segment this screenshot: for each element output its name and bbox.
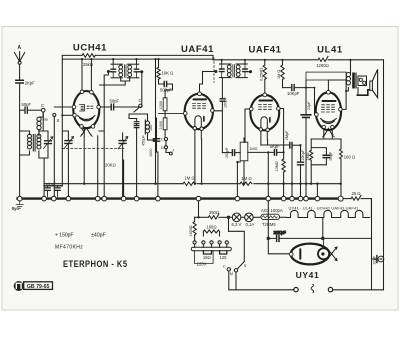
lamp 6.3V [232,213,241,222]
svg-text:160 Ω: 160 Ω [344,155,355,160]
anode bar UAF2 [260,100,273,102]
wire inner right vertical [371,199,373,290]
electrolytic 32uF [372,255,384,263]
pin circle UAF1 top [198,92,202,96]
pin circle UAF2 left [249,107,253,111]
wire 450pF legs [157,118,158,196]
pin circle UCH41 right-mid [97,105,101,109]
svg-text:1000: 1000 [159,101,163,109]
switch contact b [234,269,237,272]
IF1 sec bottom drop [100,78,130,85]
wire lamp feed from gnd circle [198,201,200,217]
wire UAF2 diode right to 2MpF [261,140,268,145]
svg-text:0,1A: 0,1A [246,222,255,227]
ground symbol chassis [16,201,24,208]
wire right border [383,60,385,290]
IF1 cap right [134,69,138,72]
wire tcap2 top [122,133,124,141]
pin circle UCH41 bottom-right [91,125,95,129]
svg-text:22μF: 22μF [307,101,311,110]
terminal C2 [139,104,142,107]
wire between lamps [241,216,245,218]
svg-text:50рF: 50рF [110,99,120,104]
cathode arc UCH41 [78,116,96,120]
cap 0.1uF b [55,188,60,191]
resistor 160 horizontal [203,230,219,236]
svg-text:1000: 1000 [149,149,153,157]
wire cath drop [99,131,104,196]
wire UL41 grid feed [315,88,316,115]
wire 2MpF right [292,144,301,146]
wire osc join [148,139,157,141]
wire antenna down [19,64,21,80]
pin circle UAF2 top [263,93,267,97]
svg-text:UY41: UY41 [296,270,320,280]
link loop 180 [203,251,211,254]
capacitor 2KpF [16,80,23,83]
pin circle UAF1 left [184,112,188,116]
IF2 sec drop cap 100pF [221,78,223,99]
speaker cone [372,69,377,97]
wire UCH41 osc grid link [82,128,85,132]
junction circle gnd 15 [298,196,303,201]
svg-text:20KΩ: 20KΩ [105,163,116,168]
pin circle UL41 bottom-right [331,125,334,128]
resistor 160 ohm cathode [340,139,343,166]
wire osc grid drop [83,129,85,184]
svg-text:0уо: 0уо [12,206,20,211]
wire 5KpF out [277,151,284,153]
IF2 cap right [243,69,247,72]
IF1 bottom bar left [111,77,123,79]
wire top rail to corner [328,59,384,61]
variable capacitor antenna trim [43,131,53,158]
wire UAF1 topcap up [200,72,203,92]
svg-text:C: C [139,98,142,103]
wire UCH41 leftlow pin to frame [62,114,72,116]
wire upper rail cont [95,54,213,56]
svg-text:A: A [18,45,22,51]
wire switch to plug [229,271,293,290]
svg-text:10MΩ: 10MΩ [275,161,279,171]
IF2 feed stubs [222,60,245,64]
wire 350 line left [195,216,209,218]
pin circle UL41 left [315,113,319,117]
resistor 1000 box a [163,98,167,111]
capacitor 2MpF [290,142,292,148]
pin circle UL41 top [327,90,331,94]
pin circle UAF1 right [211,109,215,113]
selector pin 3 [210,241,213,244]
IF2 top bar left [220,63,232,65]
svg-text:10K Ω: 10K Ω [162,71,174,76]
wire 50pF to switch C [109,106,139,108]
svg-text:UAF41: UAF41 [181,44,214,55]
wire 22uF chain [305,80,307,196]
UY41 arrows [327,247,337,260]
selector pin 2 [202,241,205,244]
resistor 10K vertical [157,59,160,79]
wire tcap1 bottom [67,143,69,196]
wire to 50pF [20,109,24,111]
svg-text:10KрF: 10KрF [301,149,305,161]
svg-text:500pF: 500pF [160,88,172,93]
capacitor 5KpF [274,150,276,156]
IF1 right drop to osc [140,72,141,107]
wire heater drop [97,136,99,196]
resistor 25k in upper rail [82,54,95,58]
pin circle UAF2 bottom-left [259,128,262,131]
cathode arc UL41 [321,119,337,123]
svg-text:1MΩ: 1MΩ [249,147,257,151]
svg-text:1600Ω: 1600Ω [189,225,193,236]
pin circle UCH41 left-low [73,114,77,118]
pin circle UAF2 bottom-right [266,128,269,131]
wire left frame vertical [61,55,63,185]
svg-text:ETERPHON - K5: ETERPHON - K5 [63,258,128,269]
speaker return wire [357,90,370,95]
resistor 1M inline AVC [183,182,195,185]
svg-text:450рF: 450рF [142,135,146,146]
diode plate UAF2 [269,118,271,123]
wire 20KpF line [268,201,371,239]
svg-text:203рF: 203рF [225,147,229,158]
logo box GB 79-65 [24,282,53,290]
IF1 feed stubs [113,59,136,64]
junction circle gnd end [338,196,343,201]
wire coil sec top [39,112,43,135]
svg-text:UY41 · UL41 · UCH41 UAF41 UAF4: UY41 · UL41 · UCH41 UAF41 UAF41 [289,206,360,211]
tube UL41 envelope [316,92,341,130]
svg-text:32μF: 32μF [372,255,376,264]
mains plug terminal 1 [294,287,298,291]
selector pin 1 [193,241,196,244]
grid dashes UAF2 [259,105,272,110]
wire AVC bus right [254,183,341,185]
svg-text:100рF: 100рF [224,97,228,108]
pin circle UL41 right [339,108,343,112]
terminal J [169,152,172,155]
wire rail join at IF2 [212,55,214,59]
pin circle UCH41 left-mid [72,105,76,109]
anode bar UL41 [323,100,336,102]
selector pin 4 [218,241,221,244]
wire UAF2 left pin [245,109,249,142]
svg-text:10KрF: 10KрF [287,91,300,96]
IF2 bottom bar left [220,77,232,79]
svg-text:125: 125 [220,255,228,260]
wire to switch [229,231,245,261]
IF2 core [233,65,235,77]
electrolytic 22uF [301,115,311,118]
wire 10KpF vert [300,145,302,161]
wire UAF1 diode left drop [194,139,196,184]
IF1 top bar right [128,63,139,65]
junction circle gnd 6 [102,196,107,201]
transformer primary coil [346,72,350,85]
wire coil sec bottom [39,151,48,196]
svg-text:T2RM5: T2RM5 [262,222,276,227]
wire coil prim left leg [20,131,30,155]
junction circle gnd 16 [304,196,309,201]
IF2 dashed can [213,58,215,83]
resistor 25ohm inline [351,195,361,200]
svg-text:0,25MΩ: 0,25MΩ [259,67,263,81]
tube UCH41 envelope [73,91,99,128]
wire pot top [243,138,245,142]
IF1 left drop [104,72,108,132]
ground rail thick [18,197,341,199]
wire heater tap down [322,218,324,239]
pin circle UAF2 bottom-left redraw [259,128,262,131]
cathode bypass loop [310,139,327,184]
wire C down to coil Ma [39,112,43,117]
wire 317 stub [316,184,318,197]
wire S switch line [53,117,55,197]
svg-text:J: J [172,149,174,153]
antenna coil core [33,135,35,152]
pin circle UAF1 bottom-right redraw [200,127,203,130]
svg-text:C: C [223,265,226,269]
wire af out [222,152,231,154]
pin circle UAF1 bottom-left [193,127,196,130]
wire UCH41 out right [100,106,108,108]
svg-text:18Ω: 18Ω [203,255,211,260]
svg-text:C: C [161,138,164,142]
wire upper B+ rail [62,54,82,56]
wire UL41 anode right [342,80,346,109]
switch blade [237,262,244,270]
wire osc coil legs [147,114,149,140]
heater UCH41 [82,128,91,135]
variable capacitor tuning 2 [119,141,126,144]
terminal C phono [164,137,167,140]
capacitor 50pF IF out [111,104,113,110]
IF1 bottom bar right [128,77,139,79]
svg-text:Mа: Mа [43,118,49,122]
svg-text:350Ω: 350Ω [209,210,219,215]
resistor 1M inline AVC 2 [240,182,252,185]
IF1 stub dots [109,71,141,73]
wire resistor chain [164,90,166,137]
wire UL41 topcap [328,80,346,90]
wire 50pF to C [28,109,41,111]
grid dashes UAF1 [193,103,206,108]
wire to right inner vertical [361,198,372,200]
pin circle UY41 left [289,252,293,256]
wire osc top to tube [129,114,148,119]
IF1 cap left [111,69,115,72]
svg-text:50рF: 50рF [22,102,32,107]
svg-text:160: 160 [149,125,153,131]
IF2 bottom bar right [236,77,247,79]
junction circle gnd 2 [42,196,47,201]
antenna A [15,52,25,62]
wire UY41 anode feed [268,238,289,253]
wire UCH41 anode up left [81,59,83,90]
trimmer cap osc [134,122,139,124]
coil Ma [37,117,41,121]
antenna coil secondary [37,134,41,149]
junction circle gnd 9 [156,196,161,201]
pin circle UCH41 bottom-left [80,125,84,129]
socket bar [191,247,231,250]
wire 0.25M to grid cap [264,79,266,93]
speaker [357,69,378,97]
junction circle gnd 1 [17,196,22,201]
junction circle gnd 3 [52,196,57,201]
capacitor 50pF antenna [25,107,27,113]
pin circle UCH41 top-left [80,90,84,94]
wire tcap2 bottom [123,143,124,196]
wire lower screen rail [62,58,213,60]
resistor 350 ohm [208,214,219,219]
diode loop UAF1 [195,116,201,139]
pin circle UL41 bottom-left [322,125,325,128]
wire grid tap [54,106,73,108]
selector box [194,251,213,264]
svg-text:2MрF: 2MрF [285,130,289,140]
resistor 1M vertical top [281,60,284,80]
junction circle gnd 4 [66,196,71,201]
svg-text:+ 150pF: + 150pF [55,233,74,239]
wire drop 237 [236,162,238,196]
capacitor 450pF [153,139,159,142]
wire pot bottom [243,161,245,184]
wire 160 to gnd end [340,166,342,196]
junction circle gnd 14 [290,196,295,201]
selector pin stems [195,244,227,247]
terminal C [41,108,45,112]
heater dot UY41 [321,252,324,255]
svg-text:50μF: 50μF [329,151,333,160]
IF1 top bar left [111,63,123,65]
wire diode stem drop [267,152,269,196]
wire fuse to heaters [280,216,287,218]
potentiometer 1M box [240,142,248,161]
mains plug terminal 2 [328,287,332,291]
wire topcap to IF2 [203,71,216,73]
resistor 1600 vertical [193,217,196,241]
svg-text:е1 μF: е1 μF [46,182,56,186]
wire UL41 cathode bottom [311,129,341,139]
svg-text:1200Ω: 1200Ω [316,63,329,68]
junction circle gnd 5 [95,196,100,201]
svg-text:1M Ω: 1M Ω [277,70,281,79]
wire heater circle top [323,238,325,248]
svg-text:25 Ω: 25 Ω [351,191,360,196]
tube UAF41 no1 [184,92,215,139]
cathode bar UY41 [299,249,301,259]
wire single top rail right [213,59,318,61]
IF2 top bar right [236,63,247,65]
antenna coil primary [28,134,32,149]
wire ground tail 25ohm [343,198,351,200]
wire coil to ant transformer [38,130,40,136]
capacitor 10KpF lower [298,162,304,165]
resistor 1000 box b [163,118,167,130]
wire y145 [268,144,289,146]
IF2 cap left [220,69,224,72]
svg-text:160Ω: 160Ω [206,225,216,230]
pin circle UAF2 right [277,107,281,111]
transformer core [352,73,355,89]
wire ant cap down [19,84,21,196]
svg-text:D: D [161,146,164,150]
svg-text:20KрF: 20KрF [274,230,287,235]
IF1 core [124,65,126,77]
junction circle gnd 7 [121,196,126,201]
wire 1M bottom to coupling [282,79,284,87]
terminal D phono [164,146,167,149]
lamp 0.1A [245,213,254,222]
grid dashes UCH41 [87,106,93,108]
output transformer [346,60,366,91]
IF1 coil left [119,65,123,69]
wire to lamps [219,216,232,218]
svg-text:UCH41: UCH41 [73,43,107,54]
wire UAF2 right pin [280,109,283,160]
wire cap to pot [235,152,241,154]
capacitor 50uF plates [323,155,329,157]
wire trimmer bottom [136,128,138,197]
svg-text:1000: 1000 [159,121,163,129]
svg-text:±40pF: ±40pF [91,233,106,239]
tube UAF41 no2 [250,95,279,130]
junction circle gnd 8 [134,196,139,201]
mains cord squiggle [311,284,314,293]
wire AVC bus left [44,183,183,185]
wire to fuse [253,216,261,218]
junction circle gnd 10 [196,196,201,201]
IF2 coil left [227,65,231,69]
wire UAF1 diode right drop [201,139,203,184]
osc coil 1 [146,121,150,125]
grid box UCH41 [78,105,96,137]
svg-text:M: M [230,272,233,276]
wire switch pole2 [235,272,237,290]
wire primary bottom [346,87,348,91]
capacitor 500uF [164,81,166,86]
svg-text:1M Ω: 1M Ω [184,176,194,181]
wire coupling [283,87,315,89]
wire bottom mains [333,289,384,291]
pin circle UCH41 top-right [90,90,94,94]
wire pot wiper out [248,151,274,153]
junction circle gnd 12 [266,196,271,201]
wire screen drop [155,59,157,184]
wire 500uF leads [159,84,173,90]
junction circle gnd 13 [281,196,286,201]
cap 0.1uF a [44,186,62,191]
wire UCH41 anode up right [90,59,92,90]
resistor 10M vertical [282,159,285,196]
dashed gang link [62,147,124,149]
wire heater end to vert [370,199,372,218]
pin circles redraw over internals [193,127,269,132]
tube UY41 envelope [291,244,329,265]
feedback box [306,72,346,80]
junction dot [197,216,199,218]
svg-text:S: S [244,264,247,268]
junction circle gnd 11 [235,196,240,201]
junction circle gnd 17 [315,196,320,201]
pin circle UAF1 bottom-right [200,127,203,130]
grid dashes UL41 [322,105,335,112]
switch contact a [227,268,230,271]
capacitor 10KpF coupling [292,85,294,91]
capacitor 203pF [232,150,234,156]
